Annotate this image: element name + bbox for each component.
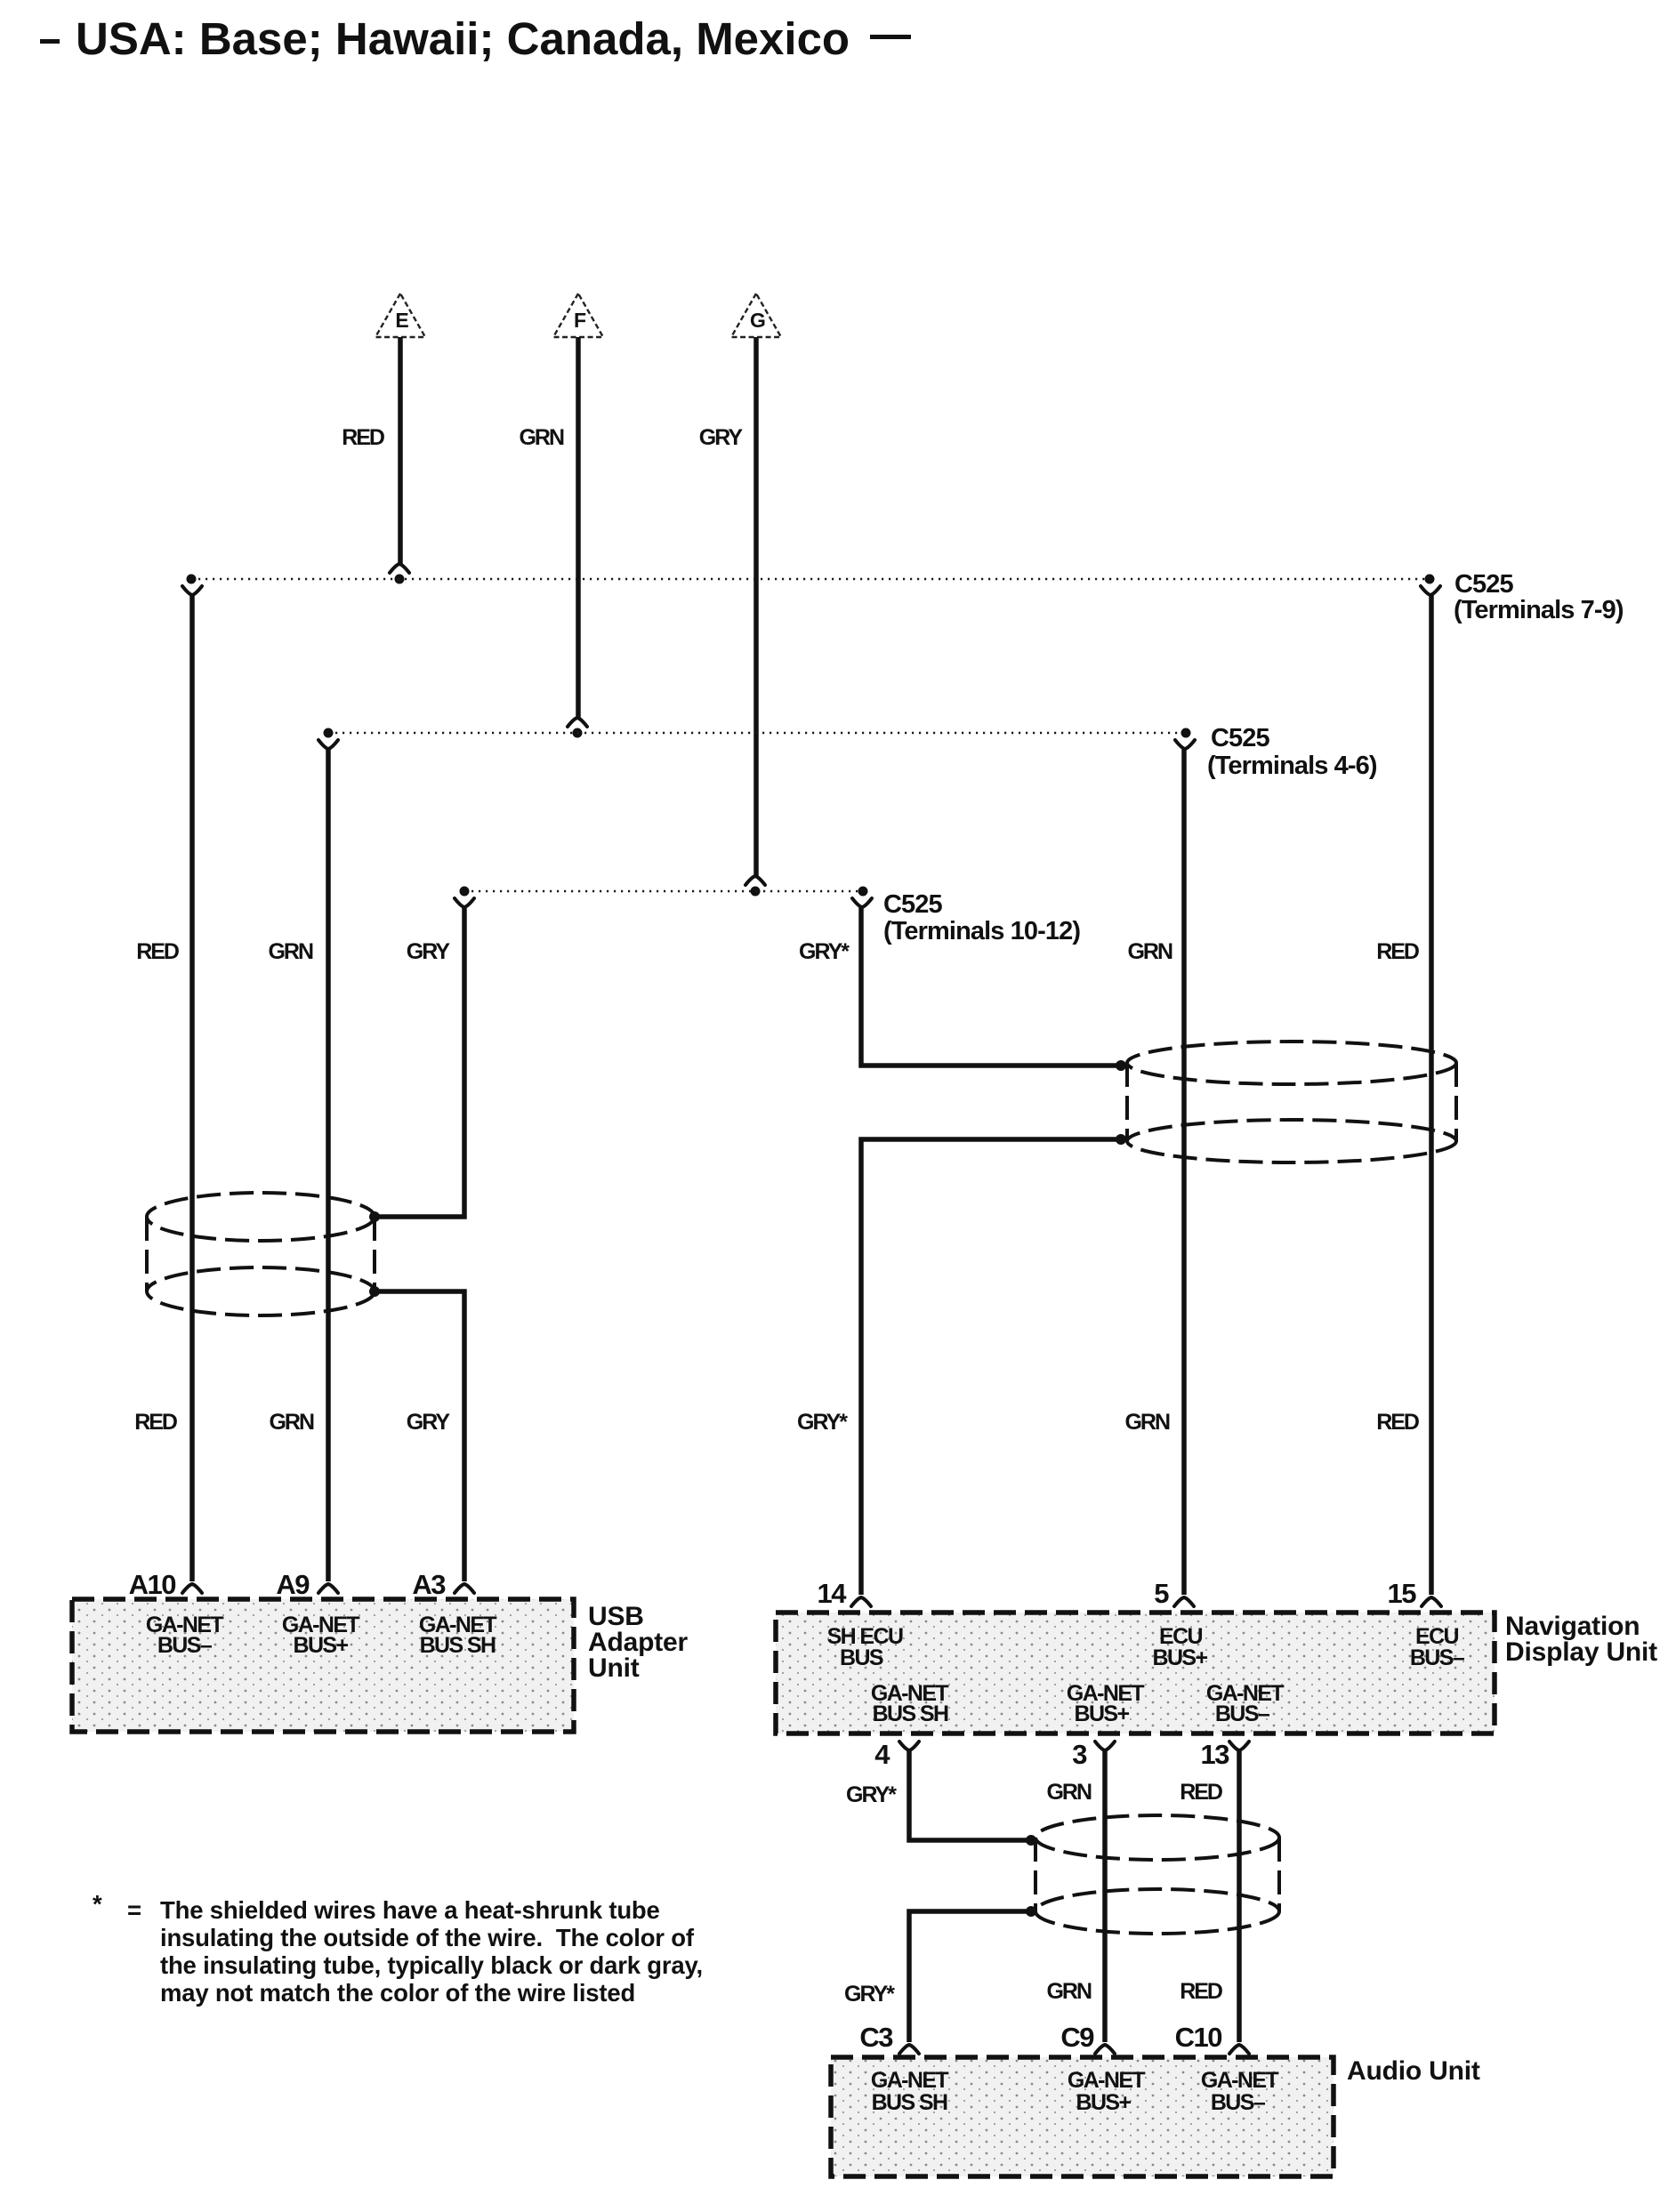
svg-text:GRN: GRN xyxy=(1046,1780,1092,1805)
svg-text:5: 5 xyxy=(1154,1578,1169,1609)
wire RED to USB A10 xyxy=(189,595,195,1581)
svg-text:(Terminals 7-9): (Terminals 7-9) xyxy=(1454,596,1624,624)
wire GRY* (shield drain) to Nav pin 14 xyxy=(861,907,1121,1066)
svg-text:GA-NET: GA-NET xyxy=(1201,2068,1279,2093)
svg-text:BUS SH: BUS SH xyxy=(872,2090,947,2115)
svg-text:A3: A3 xyxy=(412,1569,446,1600)
node: junction dot E on C525 7-9 line xyxy=(395,575,405,584)
node dot left end 4-6 xyxy=(324,728,334,738)
wire GRN from connector F xyxy=(576,337,581,718)
USB Adapter Unit box xyxy=(72,1599,574,1732)
svg-text:C10: C10 xyxy=(1175,2022,1222,2053)
svg-text:E: E xyxy=(395,309,408,332)
title right dash xyxy=(870,35,911,39)
svg-text:GRY: GRY xyxy=(699,425,744,450)
svg-text:BUS–: BUS– xyxy=(1410,1645,1465,1670)
svg-text:13: 13 xyxy=(1201,1739,1230,1770)
wire GRN nav pin 3 to audio C9 xyxy=(1095,1741,1115,1750)
connector triangle E xyxy=(375,294,425,337)
svg-text:BUS–: BUS– xyxy=(1211,2090,1266,2115)
node dot audio shield bottom xyxy=(1026,1906,1036,1917)
svg-text:GA-NET: GA-NET xyxy=(871,2068,949,2093)
svg-text:C9: C9 xyxy=(1060,2022,1094,2053)
wire: dotted line C525 terminals 10-12 xyxy=(464,890,863,892)
wire GRY to USB A3 via shield xyxy=(375,907,464,1217)
svg-text:GRN: GRN xyxy=(268,939,313,964)
svg-text:GRY*: GRY* xyxy=(844,1982,895,2007)
svg-text:RED: RED xyxy=(134,1410,177,1435)
svg-text:RED: RED xyxy=(136,939,179,964)
svg-text:15: 15 xyxy=(1388,1578,1417,1609)
wire RED to Nav pin 15 xyxy=(1429,595,1434,1595)
svg-text:BUS+: BUS+ xyxy=(1075,1701,1130,1726)
svg-text:(Terminals 4-6): (Terminals 4-6) xyxy=(1207,752,1377,780)
wire GRN to USB A9 xyxy=(326,749,331,1581)
node: junction dot F on C525 4-6 line xyxy=(573,728,583,738)
svg-text:insulating the outside of the: insulating the outside of the wire. The … xyxy=(160,1924,695,1951)
node dot nav shield top xyxy=(1116,1060,1126,1071)
node dot right end 4-6 xyxy=(1181,728,1191,738)
svg-text:F: F xyxy=(574,309,586,332)
svg-text:RED: RED xyxy=(1180,1780,1222,1805)
wire GRY* nav pin 4 to audio C3 via shield xyxy=(899,1741,919,1750)
svg-text:(Terminals 10-12): (Terminals 10-12) xyxy=(883,917,1080,945)
svg-text:Display Unit: Display Unit xyxy=(1505,1637,1657,1667)
wire: dotted line C525 terminals 4-6 xyxy=(328,732,1186,734)
svg-text:Unit: Unit xyxy=(588,1653,640,1683)
shield cylinder (nav display wires) xyxy=(1127,1042,1456,1084)
node: junction dot G on C525 10-12 line xyxy=(751,887,761,897)
svg-text:BUS SH: BUS SH xyxy=(420,1633,496,1658)
svg-text:GRY*: GRY* xyxy=(799,939,850,964)
svg-text:GRY*: GRY* xyxy=(846,1782,897,1807)
shield cylinder (USB adapter wires) xyxy=(147,1193,375,1241)
node dot shield top xyxy=(369,1211,380,1222)
title left dash xyxy=(40,39,60,44)
svg-text:GA-NET: GA-NET xyxy=(1068,2068,1146,2093)
svg-text:BUS+: BUS+ xyxy=(1153,1645,1208,1670)
svg-text:USA: Base; Hawaii; Canada, Mex: USA: Base; Hawaii; Canada, Mexico xyxy=(76,13,850,64)
svg-text:BUS–: BUS– xyxy=(157,1633,213,1658)
svg-text:G: G xyxy=(750,309,766,332)
svg-text:C525: C525 xyxy=(1211,724,1269,752)
node dot right end 10-12 xyxy=(858,887,868,897)
svg-text:A9: A9 xyxy=(276,1569,310,1600)
wire RED from connector E xyxy=(398,337,403,564)
svg-text:GRY: GRY xyxy=(407,1410,451,1435)
svg-text:C525: C525 xyxy=(1454,570,1513,599)
svg-text:RED: RED xyxy=(1180,1979,1222,2004)
Navigation Display Unit box xyxy=(776,1613,1495,1733)
svg-text:GRY*: GRY* xyxy=(797,1410,848,1435)
svg-text:Audio Unit: Audio Unit xyxy=(1347,2056,1480,2086)
node dot left end 7-9 xyxy=(187,575,197,584)
svg-text:The shielded wires have a heat: The shielded wires have a heat-shrunk tu… xyxy=(160,1896,660,1924)
svg-text:GRN: GRN xyxy=(1127,939,1172,964)
svg-text:the insulating tube, typically: the insulating tube, typically black or … xyxy=(160,1951,703,1979)
svg-text:BUS–: BUS– xyxy=(1215,1701,1270,1726)
svg-text:BUS+: BUS+ xyxy=(1076,2090,1132,2115)
svg-text:14: 14 xyxy=(818,1578,848,1609)
svg-text:4: 4 xyxy=(874,1739,890,1770)
svg-text:BUS SH: BUS SH xyxy=(873,1701,948,1726)
svg-text:*: * xyxy=(93,1890,102,1918)
wire GRY from connector G xyxy=(753,337,759,876)
connector triangle G xyxy=(731,294,781,337)
svg-text:A10: A10 xyxy=(129,1569,176,1600)
node dot right end 7-9 xyxy=(1425,575,1435,584)
node dot shield bottom xyxy=(369,1286,380,1297)
node dot left end 10-12 xyxy=(460,887,470,897)
svg-text:may not match the color of the: may not match the color of the wire list… xyxy=(160,1979,635,2007)
wire RED nav pin 13 to audio C10 xyxy=(1229,1741,1249,1750)
svg-text:BUS: BUS xyxy=(840,1645,883,1670)
svg-text:=: = xyxy=(127,1896,141,1924)
connector triangle F xyxy=(553,294,603,337)
svg-text:3: 3 xyxy=(1072,1739,1087,1770)
svg-text:RED: RED xyxy=(1376,1410,1419,1435)
wire GRN to Nav pin 5 xyxy=(1181,749,1187,1595)
node dot audio shield top xyxy=(1026,1835,1036,1846)
svg-text:BUS+: BUS+ xyxy=(294,1633,349,1658)
Audio Unit box xyxy=(831,2057,1334,2176)
wire: dotted line C525 terminals 7-9 xyxy=(191,578,1430,580)
svg-text:C525: C525 xyxy=(883,890,942,919)
node dot nav shield bottom xyxy=(1116,1134,1126,1145)
svg-text:GRN: GRN xyxy=(1046,1979,1092,2004)
svg-text:GRY: GRY xyxy=(407,939,451,964)
shield cylinder (audio wires) xyxy=(1035,1815,1279,1860)
svg-text:GRN: GRN xyxy=(519,425,564,450)
svg-text:C3: C3 xyxy=(859,2022,893,2053)
svg-text:GRN: GRN xyxy=(1124,1410,1170,1435)
svg-text:GRN: GRN xyxy=(269,1410,314,1435)
svg-text:RED: RED xyxy=(342,425,384,450)
svg-text:RED: RED xyxy=(1376,939,1419,964)
